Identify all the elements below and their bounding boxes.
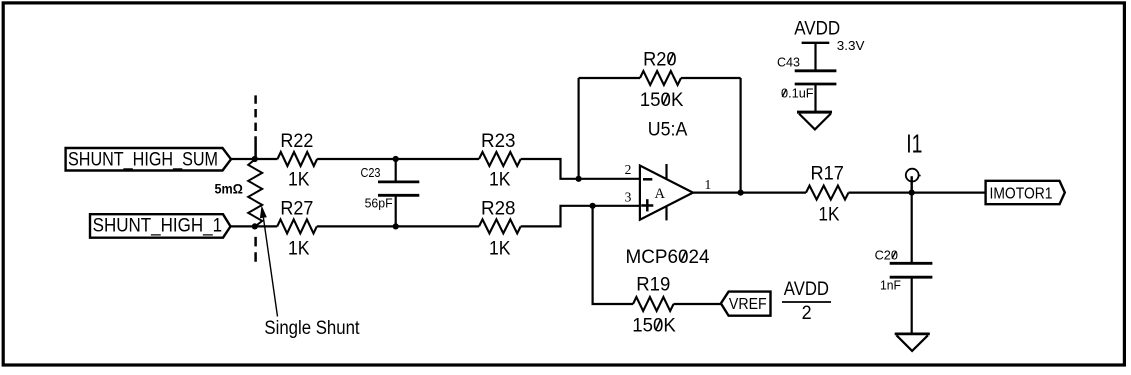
wire row1 from R23 to op-amp pin 2 (521, 159, 640, 179)
svg-text:MCP6024: MCP6024 (626, 247, 710, 268)
feedback wire right vertical (739, 78, 741, 193)
junction node pin2-feedback (576, 176, 582, 182)
svg-text:R20: R20 (643, 49, 677, 70)
capacitor C43 (777, 54, 836, 112)
svg-text:3: 3 (625, 189, 632, 204)
wire row2 from SHUNT_HIGH_1 to R27 (231, 225, 278, 227)
svg-text:U5:A: U5:A (648, 119, 688, 140)
resistor R17 (806, 163, 848, 225)
net label SHUNT_HIGH_SUM (66, 148, 231, 171)
net label VREF (721, 292, 771, 316)
net label IMOTOR1 (986, 181, 1065, 204)
feedback wire top right (681, 77, 741, 79)
svg-text:0.1uF: 0.1uF (781, 86, 814, 101)
annotation AVDD/2 (782, 279, 831, 324)
capacitor C23 (361, 159, 420, 226)
svg-text:1K: 1K (288, 170, 310, 191)
junction node row1-C23 (393, 156, 399, 162)
svg-text:I1: I1 (906, 128, 922, 158)
svg-text:VREF: VREF (729, 296, 767, 313)
test point I1 (906, 128, 923, 192)
capacitor C20 (875, 193, 933, 334)
resistor R27 (277, 199, 317, 260)
svg-text:SHUNT_HIGH_SUM: SHUNT_HIGH_SUM (68, 150, 218, 171)
svg-text:1: 1 (705, 177, 712, 192)
svg-text:2: 2 (802, 303, 812, 324)
resistor R5mOhm shunt (215, 159, 263, 226)
power symbol AVDD (794, 18, 865, 71)
wire R17 to IMOTOR1 (849, 192, 986, 194)
svg-text:R23: R23 (481, 131, 516, 152)
resistor R19 (632, 274, 676, 336)
svg-text:R22: R22 (280, 131, 313, 152)
junction node I1-C20 (909, 190, 915, 196)
junction node output-feedback (738, 190, 744, 196)
svg-text:AVDD: AVDD (794, 18, 840, 39)
svg-text:1K: 1K (288, 238, 310, 259)
svg-text:1nF: 1nF (880, 278, 901, 293)
svg-text:1K: 1K (489, 238, 511, 259)
svg-text:150K: 150K (632, 316, 676, 337)
net label SHUNT_HIGH_1 (90, 214, 231, 238)
ground below C43 (797, 112, 832, 129)
svg-text:SHUNT_HIGH_1: SHUNT_HIGH_1 (93, 215, 223, 236)
junction node row2-C23 (393, 223, 399, 229)
svg-text:AVDD: AVDD (784, 279, 829, 300)
resistor R20 (640, 49, 684, 111)
wire R19 to VREF (674, 303, 721, 305)
ground below C20 (895, 334, 930, 351)
dashed line top solid tail (254, 136, 257, 159)
junction node row1-shunt (252, 156, 258, 162)
svg-text:3.3V: 3.3V (837, 38, 865, 53)
svg-text:R19: R19 (636, 274, 670, 295)
part name MCP6024 (626, 247, 710, 268)
junction node pin3-R19 (590, 203, 596, 209)
wire pin3 junction down to R19 (593, 206, 633, 304)
wire op-amp output to R17 (693, 192, 806, 194)
svg-text:2: 2 (625, 162, 632, 177)
dashed line bottom segment (254, 237, 257, 267)
feedback wire left vertical (577, 78, 579, 179)
op-amp U5:A (640, 119, 693, 220)
dashed line top segment (254, 95, 257, 132)
svg-text:5mΩ: 5mΩ (215, 182, 243, 197)
resistor R23 (479, 131, 521, 191)
svg-text:Single Shunt: Single Shunt (264, 318, 360, 339)
annotation arrow to shunt (260, 205, 278, 316)
svg-text:1K: 1K (818, 205, 839, 226)
svg-text:150K: 150K (640, 90, 684, 111)
svg-text:R28: R28 (481, 199, 516, 220)
svg-text:A: A (655, 186, 666, 202)
svg-text:C43: C43 (777, 54, 800, 69)
svg-text:1K: 1K (489, 170, 511, 191)
svg-text:56pF: 56pF (365, 196, 393, 211)
wire row2 from R28 to op-amp pin 3 (521, 206, 640, 227)
svg-text:R27: R27 (280, 199, 313, 220)
resistor R28 (479, 199, 521, 260)
wire row1 from R22 to R23 (317, 158, 479, 160)
svg-text:IMOTOR1: IMOTOR1 (990, 185, 1053, 202)
resistor R22 (278, 131, 318, 191)
wire row2 from R27 to R28 (317, 225, 479, 227)
junction node row2-shunt (252, 223, 258, 229)
wire row1 from SHUNT_HIGH_SUM to R22 (231, 158, 278, 160)
svg-text:C23: C23 (361, 165, 381, 180)
svg-text:R17: R17 (811, 163, 844, 184)
feedback wire top left (579, 77, 640, 79)
